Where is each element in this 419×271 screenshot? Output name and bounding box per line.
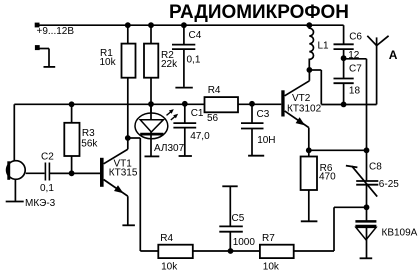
svg-text:47,0: 47,0 bbox=[190, 131, 210, 142]
svg-text:КВ109А: КВ109А bbox=[382, 227, 418, 238]
svg-text:L1: L1 bbox=[318, 40, 330, 51]
svg-text:C2: C2 bbox=[41, 151, 54, 162]
svg-text:6-25: 6-25 bbox=[379, 179, 399, 190]
svg-text:КТ315: КТ315 bbox=[109, 167, 138, 178]
svg-text:56k: 56k bbox=[81, 138, 98, 149]
svg-text:R3: R3 bbox=[82, 128, 95, 139]
svg-text:10k: 10k bbox=[100, 57, 117, 68]
svg-text:C1: C1 bbox=[191, 108, 204, 119]
svg-text:+9...12В: +9...12В bbox=[37, 26, 75, 37]
svg-text:C3: C3 bbox=[257, 109, 270, 120]
svg-text:R4: R4 bbox=[208, 85, 221, 96]
svg-text:18: 18 bbox=[349, 86, 361, 97]
svg-text:56: 56 bbox=[207, 113, 219, 124]
svg-text:1000: 1000 bbox=[233, 237, 256, 248]
svg-text:C4: C4 bbox=[189, 30, 202, 41]
svg-text:10k: 10k bbox=[263, 261, 280, 271]
svg-text:C8: C8 bbox=[369, 162, 382, 173]
svg-text:АЛ307: АЛ307 bbox=[154, 143, 185, 154]
svg-text:C7: C7 bbox=[349, 64, 362, 75]
svg-text:10k: 10k bbox=[161, 261, 178, 271]
svg-text:R7: R7 bbox=[262, 233, 275, 244]
svg-text:А: А bbox=[389, 48, 398, 62]
svg-text:C5: C5 bbox=[232, 213, 245, 224]
svg-text:C6: C6 bbox=[349, 31, 362, 42]
svg-text:РАДИОМИКРОФОН: РАДИОМИКРОФОН bbox=[169, 1, 349, 23]
svg-text:0,1: 0,1 bbox=[187, 54, 201, 65]
svg-text:R4: R4 bbox=[160, 233, 173, 244]
svg-text:10Н: 10Н bbox=[257, 135, 275, 146]
svg-text:КТ3102: КТ3102 bbox=[287, 103, 322, 114]
svg-text:МКЭ-3: МКЭ-3 bbox=[25, 198, 56, 209]
svg-text:470: 470 bbox=[319, 171, 336, 182]
svg-text:22k: 22k bbox=[161, 59, 178, 70]
svg-text:0,1: 0,1 bbox=[40, 183, 54, 194]
